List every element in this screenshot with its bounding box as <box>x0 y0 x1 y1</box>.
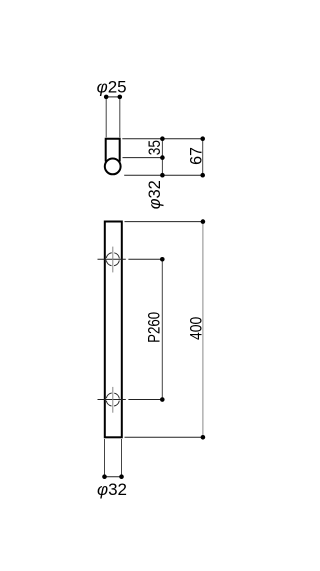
label P260 <box>146 312 164 343</box>
label φ32 side view <box>146 180 164 209</box>
extension line 400 bottom <box>125 436 203 438</box>
hole 1 vertical centerline <box>112 247 114 273</box>
extension line φ25 right <box>119 99 121 137</box>
label φ32 bottom <box>97 480 127 499</box>
extension line 400 top <box>125 221 203 223</box>
dimension line P260 <box>160 257 165 402</box>
dimension line φ32 bottom <box>102 474 124 479</box>
svg-text:P260: P260 <box>146 312 164 343</box>
dimension line φ25 <box>104 95 122 100</box>
svg-text:φ32: φ32 <box>146 180 164 209</box>
dimension line 67 <box>200 136 205 177</box>
extension line bottom tangent (bar far edge) <box>124 174 203 176</box>
bar front view (rectangle) <box>105 222 122 438</box>
hole 2 horizontal centerline <box>98 399 126 401</box>
extension line φ25 left <box>105 99 107 137</box>
hole 1 horizontal centerline <box>98 258 126 260</box>
svg-text:φ25: φ25 <box>97 78 127 97</box>
label φ25 <box>97 78 127 97</box>
hole 2 dimension connector <box>128 399 162 401</box>
bar end circle side view <box>105 159 121 175</box>
hole 2 circle <box>106 393 119 406</box>
dimension line 35 <box>160 136 165 177</box>
svg-text:φ32: φ32 <box>97 480 127 499</box>
hole 2 vertical centerline <box>112 387 114 413</box>
extension line φ32 bottom left <box>104 439 106 477</box>
label 35 <box>146 140 164 155</box>
extension line top tangent (door face) <box>122 138 202 140</box>
extension line mid tangent (bar near edge) <box>123 157 163 159</box>
dimension line 400 <box>201 219 206 439</box>
svg-text:67: 67 <box>187 147 205 165</box>
label 67 <box>187 147 205 165</box>
post side view (rectangle) <box>106 139 120 162</box>
hole 1 circle <box>106 253 119 266</box>
label 400 <box>188 317 206 340</box>
svg-text:400: 400 <box>188 317 206 340</box>
hole 1 dimension connector <box>128 258 162 260</box>
svg-text:35: 35 <box>146 140 164 155</box>
extension line φ32 bottom right <box>121 439 123 477</box>
